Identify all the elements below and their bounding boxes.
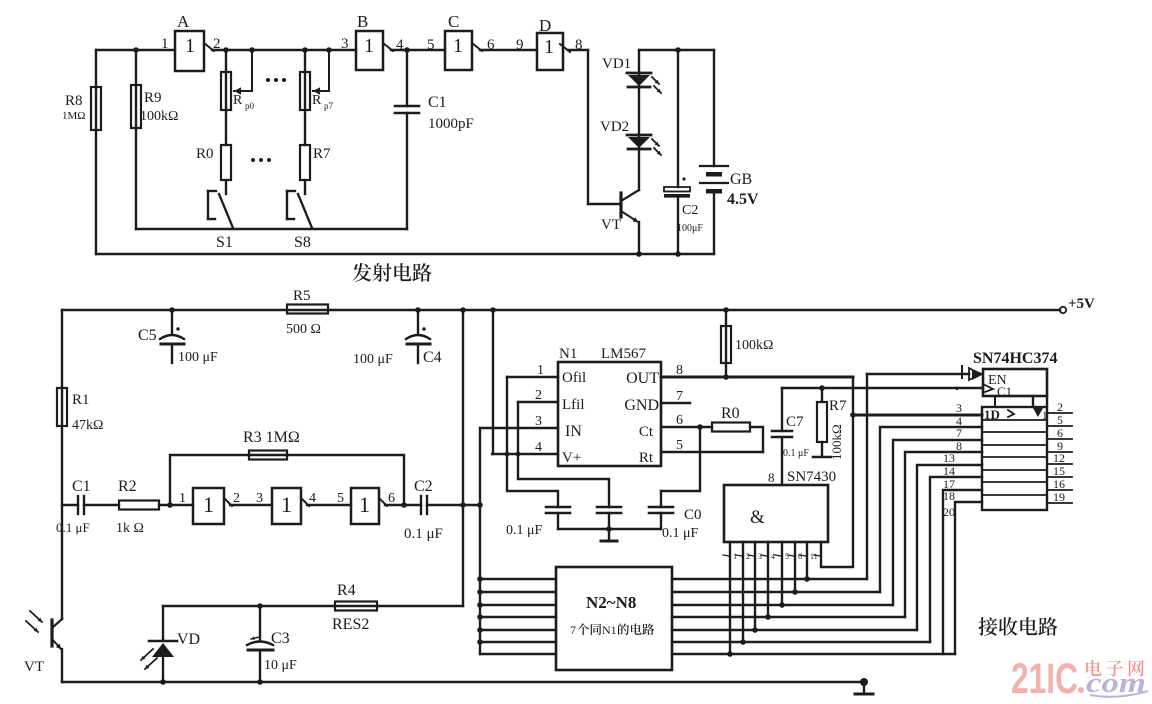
svg-text:Ct: Ct xyxy=(639,424,654,440)
svg-text:S8: S8 xyxy=(294,234,311,251)
svg-text:R1: R1 xyxy=(72,392,90,408)
svg-text:8: 8 xyxy=(676,363,683,378)
svg-text:RES2: RES2 xyxy=(332,616,369,633)
svg-text:100μF: 100μF xyxy=(677,223,703,234)
svg-text:p0: p0 xyxy=(245,101,255,111)
svg-text:1: 1 xyxy=(453,35,463,57)
svg-text:C1: C1 xyxy=(428,94,447,111)
svg-text:14: 14 xyxy=(943,464,955,478)
svg-text:6: 6 xyxy=(487,37,495,53)
svg-text:1D: 1D xyxy=(984,407,1000,422)
svg-text:3: 3 xyxy=(758,552,762,561)
svg-text:S1: S1 xyxy=(216,234,233,251)
svg-text:R: R xyxy=(312,93,322,108)
svg-text:0.1 μF: 0.1 μF xyxy=(783,448,809,459)
svg-text:C1: C1 xyxy=(72,478,91,495)
svg-text:6: 6 xyxy=(388,491,395,506)
svg-text:A: A xyxy=(177,12,190,31)
svg-text:IN: IN xyxy=(565,423,582,440)
svg-text:15: 15 xyxy=(1053,464,1065,478)
svg-text:GND: GND xyxy=(624,397,659,414)
svg-text:7: 7 xyxy=(570,623,576,637)
svg-text:1: 1 xyxy=(281,492,292,517)
svg-text:R3 1MΩ: R3 1MΩ xyxy=(243,429,300,446)
svg-text:C: C xyxy=(448,12,459,31)
svg-text:R7: R7 xyxy=(829,398,847,414)
svg-text:4: 4 xyxy=(396,37,404,53)
svg-text:100kΩ: 100kΩ xyxy=(140,109,178,124)
svg-text:C2: C2 xyxy=(682,203,698,218)
svg-text:5: 5 xyxy=(337,491,344,506)
svg-text:1: 1 xyxy=(161,36,169,52)
svg-text:18: 18 xyxy=(943,489,955,503)
svg-text:N2~N8: N2~N8 xyxy=(586,593,636,612)
svg-text:Lfil: Lfil xyxy=(562,397,585,413)
svg-text:100 μF: 100 μF xyxy=(353,352,393,367)
svg-text:21IC: 21IC xyxy=(1011,655,1078,703)
svg-text:10 μF: 10 μF xyxy=(264,658,297,673)
svg-text:1000pF: 1000pF xyxy=(428,116,474,132)
svg-text:20: 20 xyxy=(943,505,955,519)
svg-text:SN7430: SN7430 xyxy=(787,469,836,485)
svg-text:R4: R4 xyxy=(337,582,356,599)
svg-text:6: 6 xyxy=(798,552,802,561)
svg-text:7: 7 xyxy=(676,389,683,404)
svg-text:C3: C3 xyxy=(271,630,290,647)
svg-text:1: 1 xyxy=(733,552,737,561)
svg-text:8: 8 xyxy=(956,439,962,453)
svg-text:47kΩ: 47kΩ xyxy=(72,418,103,433)
svg-text:R9: R9 xyxy=(144,90,162,106)
svg-text:11: 11 xyxy=(810,552,818,561)
svg-text:2: 2 xyxy=(535,388,542,403)
svg-text:1: 1 xyxy=(185,35,195,57)
svg-text:N1: N1 xyxy=(559,346,577,362)
svg-text:&: & xyxy=(750,507,765,528)
svg-text:R0: R0 xyxy=(196,146,214,162)
svg-text:LM567: LM567 xyxy=(601,346,647,362)
svg-text:VT: VT xyxy=(601,217,621,233)
svg-text:13: 13 xyxy=(943,451,955,465)
svg-text:Rt: Rt xyxy=(639,450,654,466)
svg-text:2: 2 xyxy=(233,491,240,506)
svg-text:0.1 μF: 0.1 μF xyxy=(404,526,443,542)
svg-text:R2: R2 xyxy=(118,478,137,495)
svg-text:OUT: OUT xyxy=(626,370,659,387)
svg-text:1: 1 xyxy=(203,492,214,517)
svg-text:V+: V+ xyxy=(562,450,581,466)
svg-text:1: 1 xyxy=(537,363,544,378)
svg-text:100kΩ: 100kΩ xyxy=(735,338,773,353)
svg-text:4: 4 xyxy=(309,491,316,506)
svg-text:1: 1 xyxy=(359,492,370,517)
svg-text:4.5V: 4.5V xyxy=(727,191,759,208)
svg-text:7: 7 xyxy=(956,426,962,440)
svg-text:1: 1 xyxy=(544,36,554,58)
svg-text:3: 3 xyxy=(956,401,962,415)
svg-text:5: 5 xyxy=(427,37,435,53)
svg-text:0.1 μF: 0.1 μF xyxy=(506,523,543,538)
svg-text:3: 3 xyxy=(535,414,542,429)
svg-text:100kΩ: 100kΩ xyxy=(829,424,844,460)
svg-text:1: 1 xyxy=(364,35,374,57)
svg-text:R: R xyxy=(233,93,243,108)
svg-text:0.1 μF: 0.1 μF xyxy=(56,520,90,535)
svg-text:8: 8 xyxy=(768,470,775,485)
svg-text:2: 2 xyxy=(1057,400,1063,414)
svg-text:19: 19 xyxy=(1053,490,1065,504)
svg-text:C1: C1 xyxy=(997,384,1012,399)
svg-text:9: 9 xyxy=(516,37,524,53)
svg-text:1k Ω: 1k Ω xyxy=(116,521,144,536)
svg-text:R8: R8 xyxy=(65,93,83,109)
svg-text:VD: VD xyxy=(177,631,200,648)
svg-text:R7: R7 xyxy=(313,146,331,162)
svg-text:4: 4 xyxy=(771,552,775,561)
svg-text:8: 8 xyxy=(575,37,583,53)
svg-text:N1: N1 xyxy=(602,623,617,637)
svg-text:500 Ω: 500 Ω xyxy=(286,322,321,337)
svg-text:C4: C4 xyxy=(423,349,442,366)
svg-text:2: 2 xyxy=(746,552,750,561)
svg-text:VD1: VD1 xyxy=(602,56,631,72)
svg-text:4: 4 xyxy=(535,440,542,455)
svg-text:Ofil: Ofil xyxy=(562,370,586,386)
svg-text:D: D xyxy=(539,16,551,35)
svg-text:1: 1 xyxy=(179,491,186,506)
svg-text:3: 3 xyxy=(256,491,263,506)
svg-text:5: 5 xyxy=(785,552,789,561)
svg-text:B: B xyxy=(357,12,368,31)
svg-text:2: 2 xyxy=(213,36,221,52)
svg-text:1: 1 xyxy=(1042,410,1048,422)
svg-text:C7: C7 xyxy=(786,414,804,430)
svg-text:6: 6 xyxy=(676,413,683,428)
svg-text:C0: C0 xyxy=(684,507,702,523)
svg-text:R5: R5 xyxy=(293,288,311,304)
svg-text:0.1 μF: 0.1 μF xyxy=(662,526,699,541)
svg-text:12: 12 xyxy=(1053,451,1065,465)
svg-text:R0: R0 xyxy=(721,405,740,422)
svg-text:C2: C2 xyxy=(414,478,433,495)
svg-text:3: 3 xyxy=(341,36,349,52)
svg-text:5: 5 xyxy=(1057,413,1063,427)
svg-text:GB: GB xyxy=(730,171,752,188)
svg-text:VT: VT xyxy=(24,659,44,675)
svg-text:SN74HC374: SN74HC374 xyxy=(973,350,1057,367)
svg-text:1MΩ: 1MΩ xyxy=(62,110,85,122)
svg-text:5: 5 xyxy=(676,438,683,453)
svg-text:VD2: VD2 xyxy=(600,119,629,135)
svg-text:C5: C5 xyxy=(138,327,157,344)
svg-text:p7: p7 xyxy=(324,101,334,111)
svg-text:100 μF: 100 μF xyxy=(178,350,218,365)
svg-text:6: 6 xyxy=(1057,426,1063,440)
svg-text:16: 16 xyxy=(1053,477,1065,491)
svg-text:+5V: +5V xyxy=(1068,296,1095,312)
